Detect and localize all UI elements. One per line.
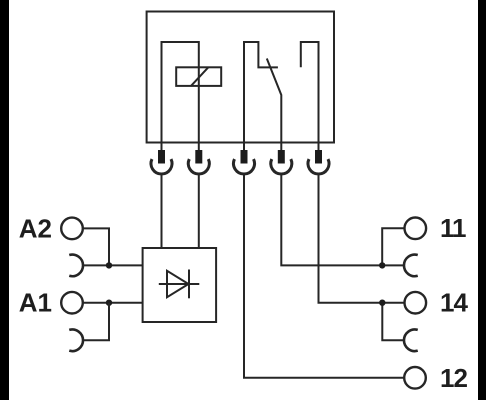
socket arc pin 4 — [271, 159, 292, 174]
pin 2 plug contact — [195, 150, 202, 164]
suppressor / polarity block with diode — [143, 248, 217, 322]
svg-text:12: 12 — [440, 363, 467, 393]
wire: NO contact loop to pin5 — [301, 42, 319, 150]
junction dot node 14 — [379, 300, 385, 306]
wire: node up to terminal 11 — [382, 228, 404, 265]
socket arc below 11 — [404, 255, 418, 277]
pin 1 plug contact — [158, 150, 165, 164]
socket arc below A2 — [69, 255, 83, 277]
wire: A2 socket arc to block — [83, 264, 143, 266]
wire: pin5 down and across to terminal 14 — [319, 174, 405, 303]
pin 4 plug contact — [278, 150, 285, 164]
wire: pin2 down to suppressor block — [198, 174, 200, 248]
wire: A2 to node — [83, 228, 109, 265]
wire: node down to lower socket of 14 — [382, 303, 403, 341]
diode D1 anode-cathode line — [159, 283, 200, 285]
terminal circle A2 — [61, 218, 83, 240]
right black border bar — [478, 0, 486, 400]
moving contact (changeover lever) to pin4 — [267, 59, 282, 151]
diode D1 cathode bar — [188, 270, 190, 299]
coil diagonal slash — [191, 67, 208, 86]
wire: coil loop pin1 leg up, over, down to coil — [162, 42, 199, 150]
left black border bar — [0, 0, 9, 400]
svg-text:11: 11 — [440, 213, 466, 243]
wire: pin1 down to suppressor block — [161, 174, 163, 248]
junction dot node A2 — [106, 262, 112, 268]
socket arc pin 1 — [151, 159, 172, 174]
wire: pin4 down, across to node, up to terminal 11 — [281, 174, 403, 265]
socket arc below 14 — [404, 330, 418, 352]
svg-text:A2: A2 — [19, 214, 52, 244]
wire: A1 node down to socket arc — [83, 303, 109, 341]
diode D1 triangle — [167, 271, 189, 297]
pin 5 plug contact — [315, 150, 322, 164]
wire: pin3 down and across to terminal 12 — [244, 174, 404, 378]
socket arc pin 2 — [188, 159, 209, 174]
terminal circle A1 — [61, 292, 83, 314]
relay coil K1 rectangle — [176, 67, 221, 86]
pin 3 plug contact — [241, 150, 248, 164]
svg-text:A1: A1 — [19, 288, 52, 318]
svg-text:14: 14 — [440, 288, 468, 318]
wire: A1 to block — [83, 302, 143, 304]
junction dot node A1 — [106, 300, 112, 306]
socket arc below A1 — [69, 330, 83, 352]
terminal circle 11 — [405, 218, 427, 240]
junction dot node 11 — [379, 262, 385, 268]
socket arc pin 5 — [308, 159, 329, 174]
wire: NC contact loop from pin3 — [244, 42, 278, 150]
socket arc pin 3 — [234, 159, 255, 174]
relay module housing outline — [147, 12, 334, 143]
terminal circle 12 — [404, 367, 426, 389]
terminal circle 14 — [405, 292, 427, 314]
